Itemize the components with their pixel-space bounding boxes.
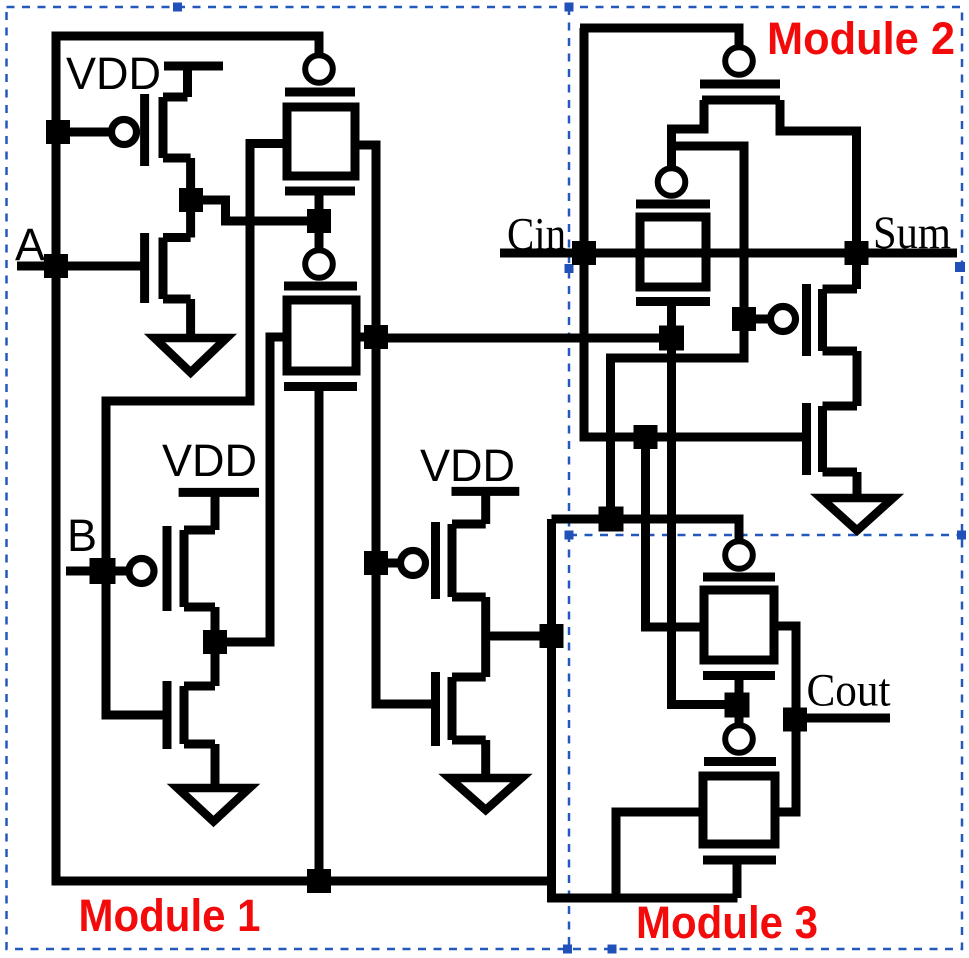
wire: VDD3 rail xyxy=(179,488,259,497)
junction node Sum xyxy=(845,241,869,265)
svg-text:Module 2: Module 2 xyxy=(767,13,955,64)
wire: left A bus vertical xyxy=(52,32,61,886)
wire: TG4 left terminal down to bottom rail xyxy=(616,812,703,898)
wire: top rail from A bus to TG1 gate bubble xyxy=(52,36,319,55)
wire: VDD1 rail xyxy=(164,62,223,71)
connector marker top partition xyxy=(565,3,574,12)
wire: TG1 right terminal down to mid stage gates xyxy=(355,145,436,704)
junction node on A bus at Q1 gate xyxy=(46,120,70,144)
wire: Q2 source to ground stub xyxy=(186,299,195,338)
wire: Q7 gate tap xyxy=(744,315,769,324)
svg-text:Cout: Cout xyxy=(807,665,891,717)
wire: Cin / Sum horizontal line xyxy=(500,249,957,258)
transistor Q6 (NMOS, mid inverter) xyxy=(431,672,440,746)
transistor Q3 (PMOS, input B) xyxy=(129,559,154,584)
connector marker partition corner xyxy=(565,531,574,540)
wire: VDD2 rail xyxy=(452,487,520,496)
wire: mid inverter output to long vertical xyxy=(486,632,552,641)
wire: TG4 bottom gate to bottom rail xyxy=(733,860,742,898)
svg-text:Module 1: Module 1 xyxy=(79,890,261,941)
wire: T2 gate node across to Sum PMOS gate and down to module 3 xyxy=(611,146,745,519)
ground symbol module1 inverter A xyxy=(155,338,227,373)
wire: TG3 right terminal down to Cout and TG4 right xyxy=(773,626,796,812)
junction node Xbar at Q7 gate xyxy=(732,307,756,331)
junction node Abar at inverter output xyxy=(179,188,203,212)
junction node A input xyxy=(44,254,68,278)
transistor T1 (module 2 top pass PMOS) xyxy=(725,47,753,75)
wire: Q3 drain to node Bbar xyxy=(211,607,220,686)
wire: TG2 bottom gate down to bottom bus xyxy=(315,387,324,882)
svg-text:Module 3: Module 3 xyxy=(636,897,818,948)
connector marker right partition xyxy=(957,531,966,540)
transistor Q5 (PMOS, mid inverter) xyxy=(401,551,426,576)
wire: Cin branch down to TG3 left terminal xyxy=(646,437,705,627)
junction node Bbar output xyxy=(203,630,227,654)
junction node XOR at T2 bottom xyxy=(659,326,684,351)
junction node Abar at TG2 gate xyxy=(307,209,331,233)
transmission gate TG4 (module 3 lower box transistor) xyxy=(725,725,753,753)
wire: Q5 drain to output node xyxy=(481,597,490,677)
wire: T2 bottom gate down to module 3 TG4 gate node xyxy=(672,302,738,705)
wire: Q4 source to ground xyxy=(211,744,220,788)
wire: B input stub xyxy=(66,567,127,576)
transmission gate TG2 (second box transistor) xyxy=(305,250,333,278)
transistor Q1 (PMOS, input A) xyxy=(112,120,137,145)
junction node mid inverter output xyxy=(540,624,564,648)
transmission gate TG3 (module 3 upper box transistor) xyxy=(725,541,753,569)
module 2 left vertical and Cin gate rail xyxy=(584,28,807,437)
junction node Q5 gate tap xyxy=(364,551,388,575)
svg-text:VDD: VDD xyxy=(162,435,257,486)
junction node XOR at TG2 right xyxy=(364,325,388,349)
wire: TG2 right terminal stub xyxy=(356,333,376,342)
wire: node Abar to TG1 gate chain xyxy=(191,200,319,221)
svg-text:A: A xyxy=(15,219,45,270)
wire: TG1 bottom gate to node Abar junction xyxy=(315,190,324,250)
wire: VDD3 to Q3 source xyxy=(211,488,220,530)
junction node Cin rail branch xyxy=(634,425,658,449)
transmission gate T2 (module 2 box transistor) xyxy=(658,168,686,196)
svg-text:Cin: Cin xyxy=(507,209,566,261)
wire: VDD1 to Q1 source xyxy=(183,62,192,98)
svg-text:B: B xyxy=(67,510,97,561)
svg-text:Sum: Sum xyxy=(873,207,951,259)
transistor Q4 (NMOS, input B line) xyxy=(163,681,172,749)
wire: node Xbar top rail to TG3 gate xyxy=(552,519,740,541)
wire: long vertical node Xbar down to bottom and over to TG4 xyxy=(552,519,738,898)
wire: T1 left terminal to T2 gate xyxy=(672,100,705,168)
wire: Q6 source to ground xyxy=(481,740,490,778)
wire: VDD2 to Q5 source xyxy=(481,487,490,524)
junction node bottom bus xyxy=(307,869,331,893)
wire: Q1 drain to node Abar xyxy=(186,158,195,238)
module 2 / module 1 partition (vertical dashed) xyxy=(568,7,571,949)
wire: gate tap of Q1 from A bus xyxy=(58,128,110,137)
ground symbol mid inverter xyxy=(450,778,522,810)
wire: Q8 source to ground xyxy=(853,472,862,498)
wire: module 2 top rail to T1 bubble xyxy=(580,28,739,47)
connector marker bottom mid xyxy=(608,945,617,954)
wire: XOR node horizontal to module 2 xyxy=(376,334,671,343)
wire: Q5 gate tap xyxy=(376,559,399,568)
module 2 / module 3 partition (horizontal dashed) xyxy=(569,534,962,537)
junction node Cin xyxy=(572,241,596,265)
wire: A input stub and gate of Q2 xyxy=(17,262,145,271)
wire: module 1 bottom bus xyxy=(56,877,556,886)
junction node TG4 gate xyxy=(725,693,750,718)
wire: T1 right terminal to Sum node xyxy=(780,100,857,289)
svg-text:VDD: VDD xyxy=(66,48,161,99)
wire: TG2 left terminal to Bbar node xyxy=(215,337,287,642)
junction node Cout xyxy=(783,708,807,732)
transistor Q8 (NMOS, Sum driver) xyxy=(802,403,811,475)
transistor Q2 (NMOS, input A) xyxy=(140,233,149,303)
wire: TG3 bottom gate to TG4 bubble xyxy=(735,676,744,725)
svg-text:VDD: VDD xyxy=(420,440,515,491)
junction node B input xyxy=(90,558,116,584)
ground symbol module 2 xyxy=(821,498,893,531)
transistor Q7 (PMOS, Sum driver) xyxy=(771,307,796,332)
wire: TG1 left terminal down-left to node B line xyxy=(106,144,287,716)
connector marker bottom left partition xyxy=(563,945,572,954)
ground symbol module1 inverter B xyxy=(178,788,250,822)
connector marker top xyxy=(173,3,182,12)
junction node Xbar rail xyxy=(599,507,624,532)
wire: Cout stub xyxy=(796,714,890,723)
transmission gate TG1 (top box transistor) xyxy=(305,55,333,83)
wire: Q7 drain to Q8 drain xyxy=(853,351,862,406)
